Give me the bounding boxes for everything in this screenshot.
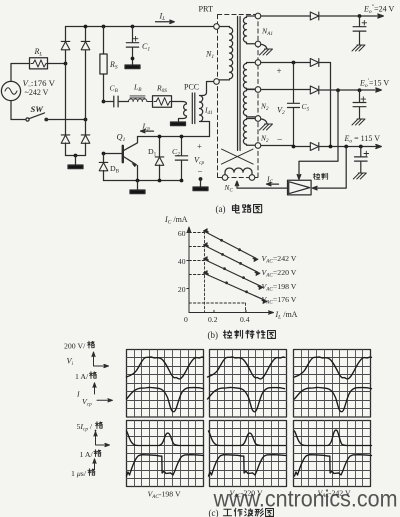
x tick 0.2 (208, 310, 218, 324)
svg-text:0.2: 0.2 (208, 315, 218, 324)
collector wire (138, 136, 210, 138)
svg-text:200 V/: 200 V/ (64, 342, 86, 351)
resistor Ros (153, 96, 183, 108)
y tick 20 (178, 285, 189, 294)
capacitor C6 (353, 16, 367, 45)
svg-text:1 A/: 1 A/ (75, 372, 89, 381)
scope P3 frame (294, 421, 371, 487)
svg-text:Q1: Q1 (117, 133, 126, 144)
y axis (187, 227, 190, 313)
svg-text:20: 20 (178, 285, 186, 294)
bridge diode D2 top-left (61, 41, 70, 49)
caption (b) (208, 330, 276, 340)
PCC secondary winding Ld (200, 82, 214, 137)
svg-text:RS: RS (109, 60, 118, 71)
svg-text:−: − (277, 136, 282, 146)
svg-text:Vcp: Vcp (194, 156, 204, 167)
15V output wire (261, 89, 378, 92)
line V176 (204, 271, 267, 303)
terminal NC left (222, 175, 228, 181)
terminal NA1 top (255, 13, 261, 19)
terminal sec minus (255, 143, 261, 149)
terminal sec plus (255, 60, 261, 66)
svg-text:D1: D1 (148, 147, 157, 158)
node C2 top (180, 135, 184, 139)
svg-text:CB: CB (110, 84, 119, 95)
switch SW (26, 113, 86, 121)
svg-text:IC /mA: IC /mA (164, 215, 188, 226)
capacitor C8 (355, 147, 369, 174)
arrow 24V (378, 14, 384, 18)
svg-text:IC: IC (266, 175, 274, 186)
bridge diode D3 top-right (81, 41, 90, 49)
node 15V cap (358, 88, 362, 92)
terminal sec centertap (255, 116, 261, 122)
diode DB (99, 154, 108, 181)
ground Vcp (193, 179, 208, 191)
current arrow Icp (141, 129, 154, 132)
trace saw c3 (295, 455, 372, 476)
terminal N1 bottom (214, 79, 220, 85)
scope P2 frame (210, 421, 287, 487)
terminal NC right (249, 175, 255, 181)
trace saw c1 (127, 455, 204, 476)
svg-text:Eo′=15 V: Eo′=15 V (359, 79, 389, 90)
top DC bus wire (66, 26, 214, 28)
svg-text:R0S: R0S (156, 84, 167, 95)
secondary winding N2 lower (243, 119, 255, 146)
x tick 0.4 (240, 310, 250, 324)
svg-text:N2: N2 (260, 134, 269, 145)
svg-text:PRT: PRT (199, 5, 214, 14)
capacitor C7 (353, 90, 366, 119)
svg-text:−: − (198, 167, 203, 177)
capacitor CB (104, 96, 129, 107)
trace Vi c2 (208, 357, 285, 379)
resistor RS (100, 27, 107, 102)
svg-text:N2: N2 (260, 102, 269, 113)
wire AC bottom to SW (11, 101, 25, 120)
arrow 15V (376, 88, 382, 92)
terminal NA1 bottom (255, 41, 261, 47)
trace Vi c1 (127, 357, 204, 379)
bottom emitter wire (104, 180, 182, 182)
24V output wire (261, 15, 380, 17)
svg-text:www.cntronics.com: www.cntronics.com (213, 486, 398, 512)
diode D6 (310, 12, 319, 20)
node C (74, 154, 78, 158)
svg-text:RL: RL (34, 47, 43, 58)
trace pulse c2 (209, 431, 286, 446)
diode D9 (310, 143, 319, 151)
ground C1 (125, 65, 140, 69)
label 1A/grid row1 (75, 372, 96, 381)
svg-text:DB: DB (110, 164, 120, 175)
node 24V (358, 14, 362, 18)
svg-text:VAC=198 V: VAC=198 V (262, 282, 297, 293)
control box U1 (288, 180, 312, 195)
chassis ground 115V (353, 173, 366, 179)
svg-text:C1: C1 (142, 42, 150, 53)
svg-text:Eo″=24 V: Eo″=24 V (363, 5, 395, 16)
svg-text:0: 0 (184, 315, 188, 324)
bridge left leg wire (65, 27, 67, 156)
trace saw c2 (209, 455, 286, 476)
capacitor C5 rail (288, 63, 300, 147)
svg-text:LB: LB (133, 83, 142, 94)
trace Icp c2 (208, 387, 285, 411)
label 1us/grid (71, 469, 95, 478)
scope V1 frame (127, 350, 204, 418)
node bus-right-leg (84, 25, 88, 29)
line V242 (204, 229, 258, 261)
svg-text:IL /mA: IL /mA (275, 310, 298, 321)
scope V3 frame (294, 350, 371, 418)
svg-text:I: I (76, 390, 80, 399)
bridge bottom wire (66, 155, 86, 157)
dashed guide h30 (189, 274, 205, 276)
label +Vcp- (194, 141, 204, 177)
arrow up row1 (93, 383, 96, 394)
transformer core (238, 17, 241, 151)
svg-text:N1: N1 (205, 50, 214, 61)
trace Icp c3 (295, 387, 372, 411)
node base (102, 152, 106, 156)
control sense wire top (297, 90, 338, 179)
current arrow IL (156, 20, 175, 23)
label 5Icp/grid (77, 422, 103, 433)
svg-text:40: 40 (178, 257, 186, 266)
svg-text:VAC-198 V: VAC-198 V (148, 490, 182, 501)
ground emitter (130, 181, 145, 194)
svg-text:Icp: Icp (142, 122, 151, 133)
diode D7 (310, 86, 319, 94)
bridge diode D5 bottom-right (81, 135, 90, 143)
svg-text:NA1: NA1 (261, 27, 273, 38)
axes icon row1 (92, 352, 109, 368)
svg-text:(c): (c) (209, 508, 219, 517)
capacitor C2 (175, 137, 187, 181)
PCC primary winding (179, 102, 187, 122)
node 15V ctrl tap (336, 88, 340, 92)
node aux-C5 (292, 61, 296, 65)
svg-text:IL: IL (159, 12, 166, 23)
label 200V/grid (64, 341, 94, 350)
bridge right leg wire (85, 27, 87, 156)
arrow up row2 (93, 459, 96, 469)
node D1 top (158, 135, 162, 139)
dashed guide h60 (189, 232, 205, 234)
svg-text:VAC=242 V: VAC=242 V (262, 254, 297, 265)
bridge diode D4 bottom-left (61, 135, 70, 143)
capacitor C1 (126, 27, 138, 66)
wire R to bridge (48, 63, 66, 65)
dashed guide h10 (189, 302, 246, 304)
x axis (189, 311, 274, 314)
resistor R (30, 58, 48, 69)
primary winding N1 (219, 27, 232, 80)
svg-text:Eo = 115 V: Eo = 115 V (344, 134, 381, 145)
PCC core (192, 93, 195, 124)
62V aux row wire (261, 63, 331, 147)
chassis ground centertap (260, 119, 273, 130)
node RS-bottom (102, 100, 106, 104)
node Vcp ref (199, 177, 203, 181)
scope P1 frame (127, 421, 204, 487)
chassis ground NA1 (260, 44, 273, 55)
svg-text:1 μs/: 1 μs/ (71, 469, 87, 478)
y tick 60 (178, 229, 189, 238)
svg-text:Vcp: Vcp (82, 397, 92, 408)
node bus-RS (102, 25, 106, 29)
svg-text:60: 60 (178, 229, 186, 238)
arrow 115V (376, 145, 382, 149)
label 1A/grid row2 (80, 450, 101, 459)
trace Vi c3 (295, 357, 372, 379)
svg-text:1 A/: 1 A/ (80, 450, 94, 459)
scope V2 frame (210, 350, 287, 418)
caption (c) (209, 508, 274, 517)
diode D8 (310, 59, 319, 67)
transistor Q1 (104, 137, 138, 181)
svg-text:(b): (b) (208, 330, 219, 340)
trace pulse c1 (127, 431, 204, 446)
chassis ground 24V (352, 45, 365, 51)
svg-text:Vi: Vi (67, 357, 74, 368)
node B (84, 118, 88, 122)
diode D1 (155, 137, 164, 181)
node bus-C1 (131, 25, 135, 29)
ground PCC primary (171, 122, 186, 126)
svg-text:Id1: Id1 (204, 106, 213, 117)
svg-text:C5: C5 (302, 102, 310, 113)
cross lines on PRT (222, 149, 254, 164)
node A (64, 62, 68, 66)
svg-text:+: + (277, 66, 282, 76)
line V220 (204, 243, 260, 275)
node 115V rail (292, 145, 296, 149)
control sense wire right (312, 147, 346, 190)
caption (a) (216, 204, 262, 214)
chassis ground 15V (352, 119, 365, 125)
svg-text:C2: C2 (172, 147, 180, 158)
axes icon row2 (94, 430, 110, 447)
label Vcp arrow (82, 397, 113, 408)
svg-text:V2: V2 (277, 106, 285, 117)
node 115V ctrl (344, 145, 348, 149)
secondary winding N2 upper (243, 63, 255, 90)
node D1 bottom (158, 179, 162, 183)
AC source V~ (1, 81, 20, 100)
dashed guide vertical main (204, 232, 206, 313)
node emitter (136, 179, 140, 183)
svg-text:5Icp /: 5Icp / (77, 422, 93, 433)
terminal sec 15V (255, 87, 261, 93)
inductor LB (129, 96, 153, 102)
node 115V aux (329, 145, 333, 149)
ground bridge (68, 156, 83, 169)
svg-text:0.4: 0.4 (240, 315, 250, 324)
trace pulse c3 (295, 430, 372, 445)
svg-text:SW: SW (31, 104, 45, 114)
dashed guide h40 (189, 260, 205, 262)
dashed guide h50 (189, 246, 205, 248)
terminal N1 top (214, 24, 220, 30)
node 115V cap (359, 145, 363, 149)
y tick 40 (178, 257, 189, 266)
node C2 bottom (180, 179, 184, 183)
label kongzhi (313, 173, 327, 179)
control winding NC (225, 168, 252, 175)
label V~ 176 V ~242 V (23, 78, 56, 97)
PRT dashed box (218, 15, 259, 178)
control feedback wire (235, 181, 287, 188)
dashed guide vertical right (245, 303, 247, 313)
svg-text:VAC=220 V: VAC=220 V (262, 268, 297, 279)
svg-text:NC: NC (224, 183, 234, 194)
svg-text:PCC: PCC (184, 83, 199, 92)
node C1-bottom (131, 57, 135, 61)
svg-text:VAC=176 V: VAC=176 V (262, 295, 297, 306)
svg-text:+: + (197, 141, 202, 151)
current arrow IC (267, 182, 279, 185)
secondary winding N2 mid (243, 90, 255, 117)
line V198 (204, 257, 263, 289)
wire AC top to R (11, 64, 30, 82)
115V output wire (261, 146, 378, 147)
secondary winding NA1 (243, 16, 255, 44)
trace Icp c1 (127, 387, 204, 411)
svg-text:~242 V: ~242 V (25, 88, 49, 97)
svg-text:(a): (a) (216, 204, 226, 214)
